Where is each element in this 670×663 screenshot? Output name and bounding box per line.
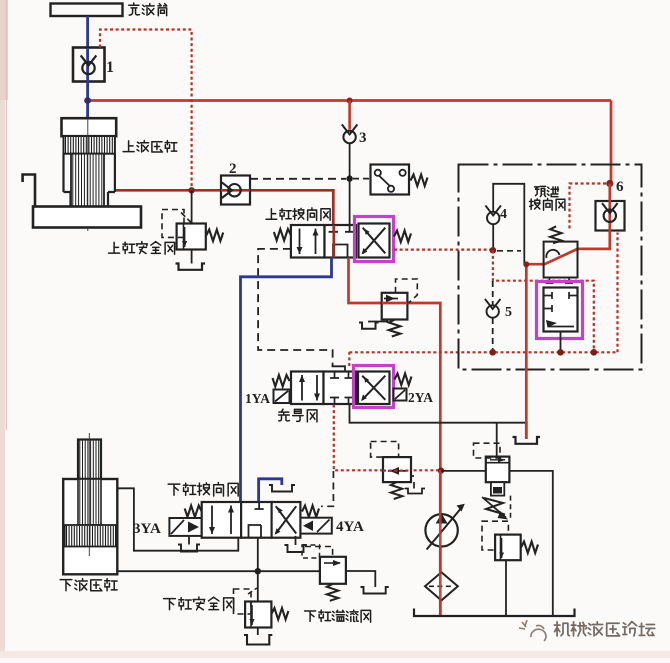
wire red: cv6 down, to pre-release valve, to main drop [526, 231, 610, 440]
filter [425, 572, 458, 600]
wire red dotted: pilot valve to X-position top [349, 233, 617, 367]
variable pump [425, 514, 457, 546]
pilot relief small valve [495, 535, 521, 561]
wire blue: tank to check valve 1 [86, 16, 89, 48]
wire red dotted: pilot right position [394, 249, 493, 251]
upper cylinder 上液压缸 [62, 118, 117, 136]
svg-text:2: 2 [229, 161, 237, 177]
wire black: A-port to lower cylinder [118, 488, 239, 550]
check valve 1 [73, 48, 105, 82]
wire to safety valve [191, 190, 193, 223]
svg-text:4: 4 [500, 207, 507, 222]
check valve 3 [342, 124, 358, 143]
wire red dotted: P down to unloading valve line [334, 405, 441, 471]
relief valve 上缸安全阀 [177, 224, 206, 250]
wire black: P-port down to node [257, 538, 259, 572]
node on red line at pilot tap [188, 187, 194, 193]
solenoid 4YA [301, 518, 332, 534]
svg-text:1: 1 [106, 59, 114, 76]
directional valve 上缸换向阀 [266, 208, 330, 220]
guide bracket [23, 175, 35, 207]
pressure switch [371, 165, 410, 195]
enclosure dash-dot box [459, 165, 642, 370]
pilot valve 先导阀 [279, 409, 317, 422]
red line into tank top right [525, 422, 528, 439]
svg-text:1YA: 1YA [245, 391, 270, 406]
wire blue: T port drain tank above valve [259, 479, 282, 502]
watermark logo [519, 620, 546, 641]
black loop with check valve 4 [493, 184, 524, 264]
node junction blue/red [84, 97, 91, 104]
unloading valve [383, 457, 411, 482]
magenta highlight box 2 [537, 282, 583, 339]
sequence/back-pressure valve [382, 293, 408, 320]
lower cylinder 下液压缸 [78, 440, 101, 480]
charge tank 充液筒 [51, 4, 123, 17]
wire red dotted: pilot of charge valve [100, 30, 192, 191]
wire blue: valve A-port down-left [241, 258, 332, 502]
check valve 6 [596, 201, 625, 231]
wire red: right vertical down to node 6 [610, 101, 613, 184]
svg-text:3: 3 [359, 130, 367, 146]
node under cv3 [349, 144, 351, 179]
main relief valve [496, 423, 498, 457]
drain tanks under ends [188, 536, 190, 545]
wire red: drop to check valve 3 [348, 101, 351, 130]
wire red: cylinder port to corner then down into valve P [115, 190, 333, 225]
check valve 2 [221, 176, 250, 205]
ports to highlighted square [546, 278, 574, 284]
预泄换向阀 label [535, 186, 559, 196]
wires P to relief and out [441, 470, 486, 472]
watermark text 机械液压论坛 [554, 622, 654, 636]
node pilot dotted [490, 247, 497, 254]
lower directional valve 下缸换向阀 [168, 482, 238, 496]
lower relief valve 下缸溢流阀 [320, 557, 346, 584]
svg-text:5: 5 [505, 305, 512, 320]
wire blue: check valve 1 down to cylinder [86, 82, 89, 119]
magenta highlight (right position of pilot valve) [354, 366, 394, 408]
pre-release pilot valve body [550, 226, 562, 243]
connector + adjustable spring [491, 482, 504, 495]
press platen [33, 207, 141, 228]
magenta highlight box (right position) [355, 217, 394, 262]
svg-text:3YA: 3YA [133, 521, 161, 537]
wire red dotted inside enclosure [493, 250, 594, 352]
check valve 5 [492, 281, 494, 305]
bottom stub to dotted rail [560, 332, 562, 353]
tank drain [176, 264, 206, 270]
wire red: main top horizontal [88, 99, 611, 102]
bottom tank rail [414, 609, 575, 617]
solenoid 3YA [169, 518, 201, 536]
lower safety valve 下缸安全阀 [257, 571, 259, 601]
wire red dotted from node 6 [570, 184, 607, 231]
wire black: pilot valve T drain to tank rail [350, 404, 527, 423]
wire red: valve to back-pressure valve, to pump line [349, 258, 441, 617]
redraw red over pump/filter [439, 470, 442, 616]
svg-text:2YA: 2YA [408, 390, 433, 405]
node 6 [606, 180, 613, 187]
svg-text:6: 6 [616, 179, 624, 195]
svg-text:4YA: 4YA [336, 519, 364, 535]
wire dashed: valve drain down-left [258, 249, 333, 366]
wire dashed: check valve 2 to node [250, 178, 346, 180]
wire dashed: external pilot to 4YA end [321, 471, 333, 506]
